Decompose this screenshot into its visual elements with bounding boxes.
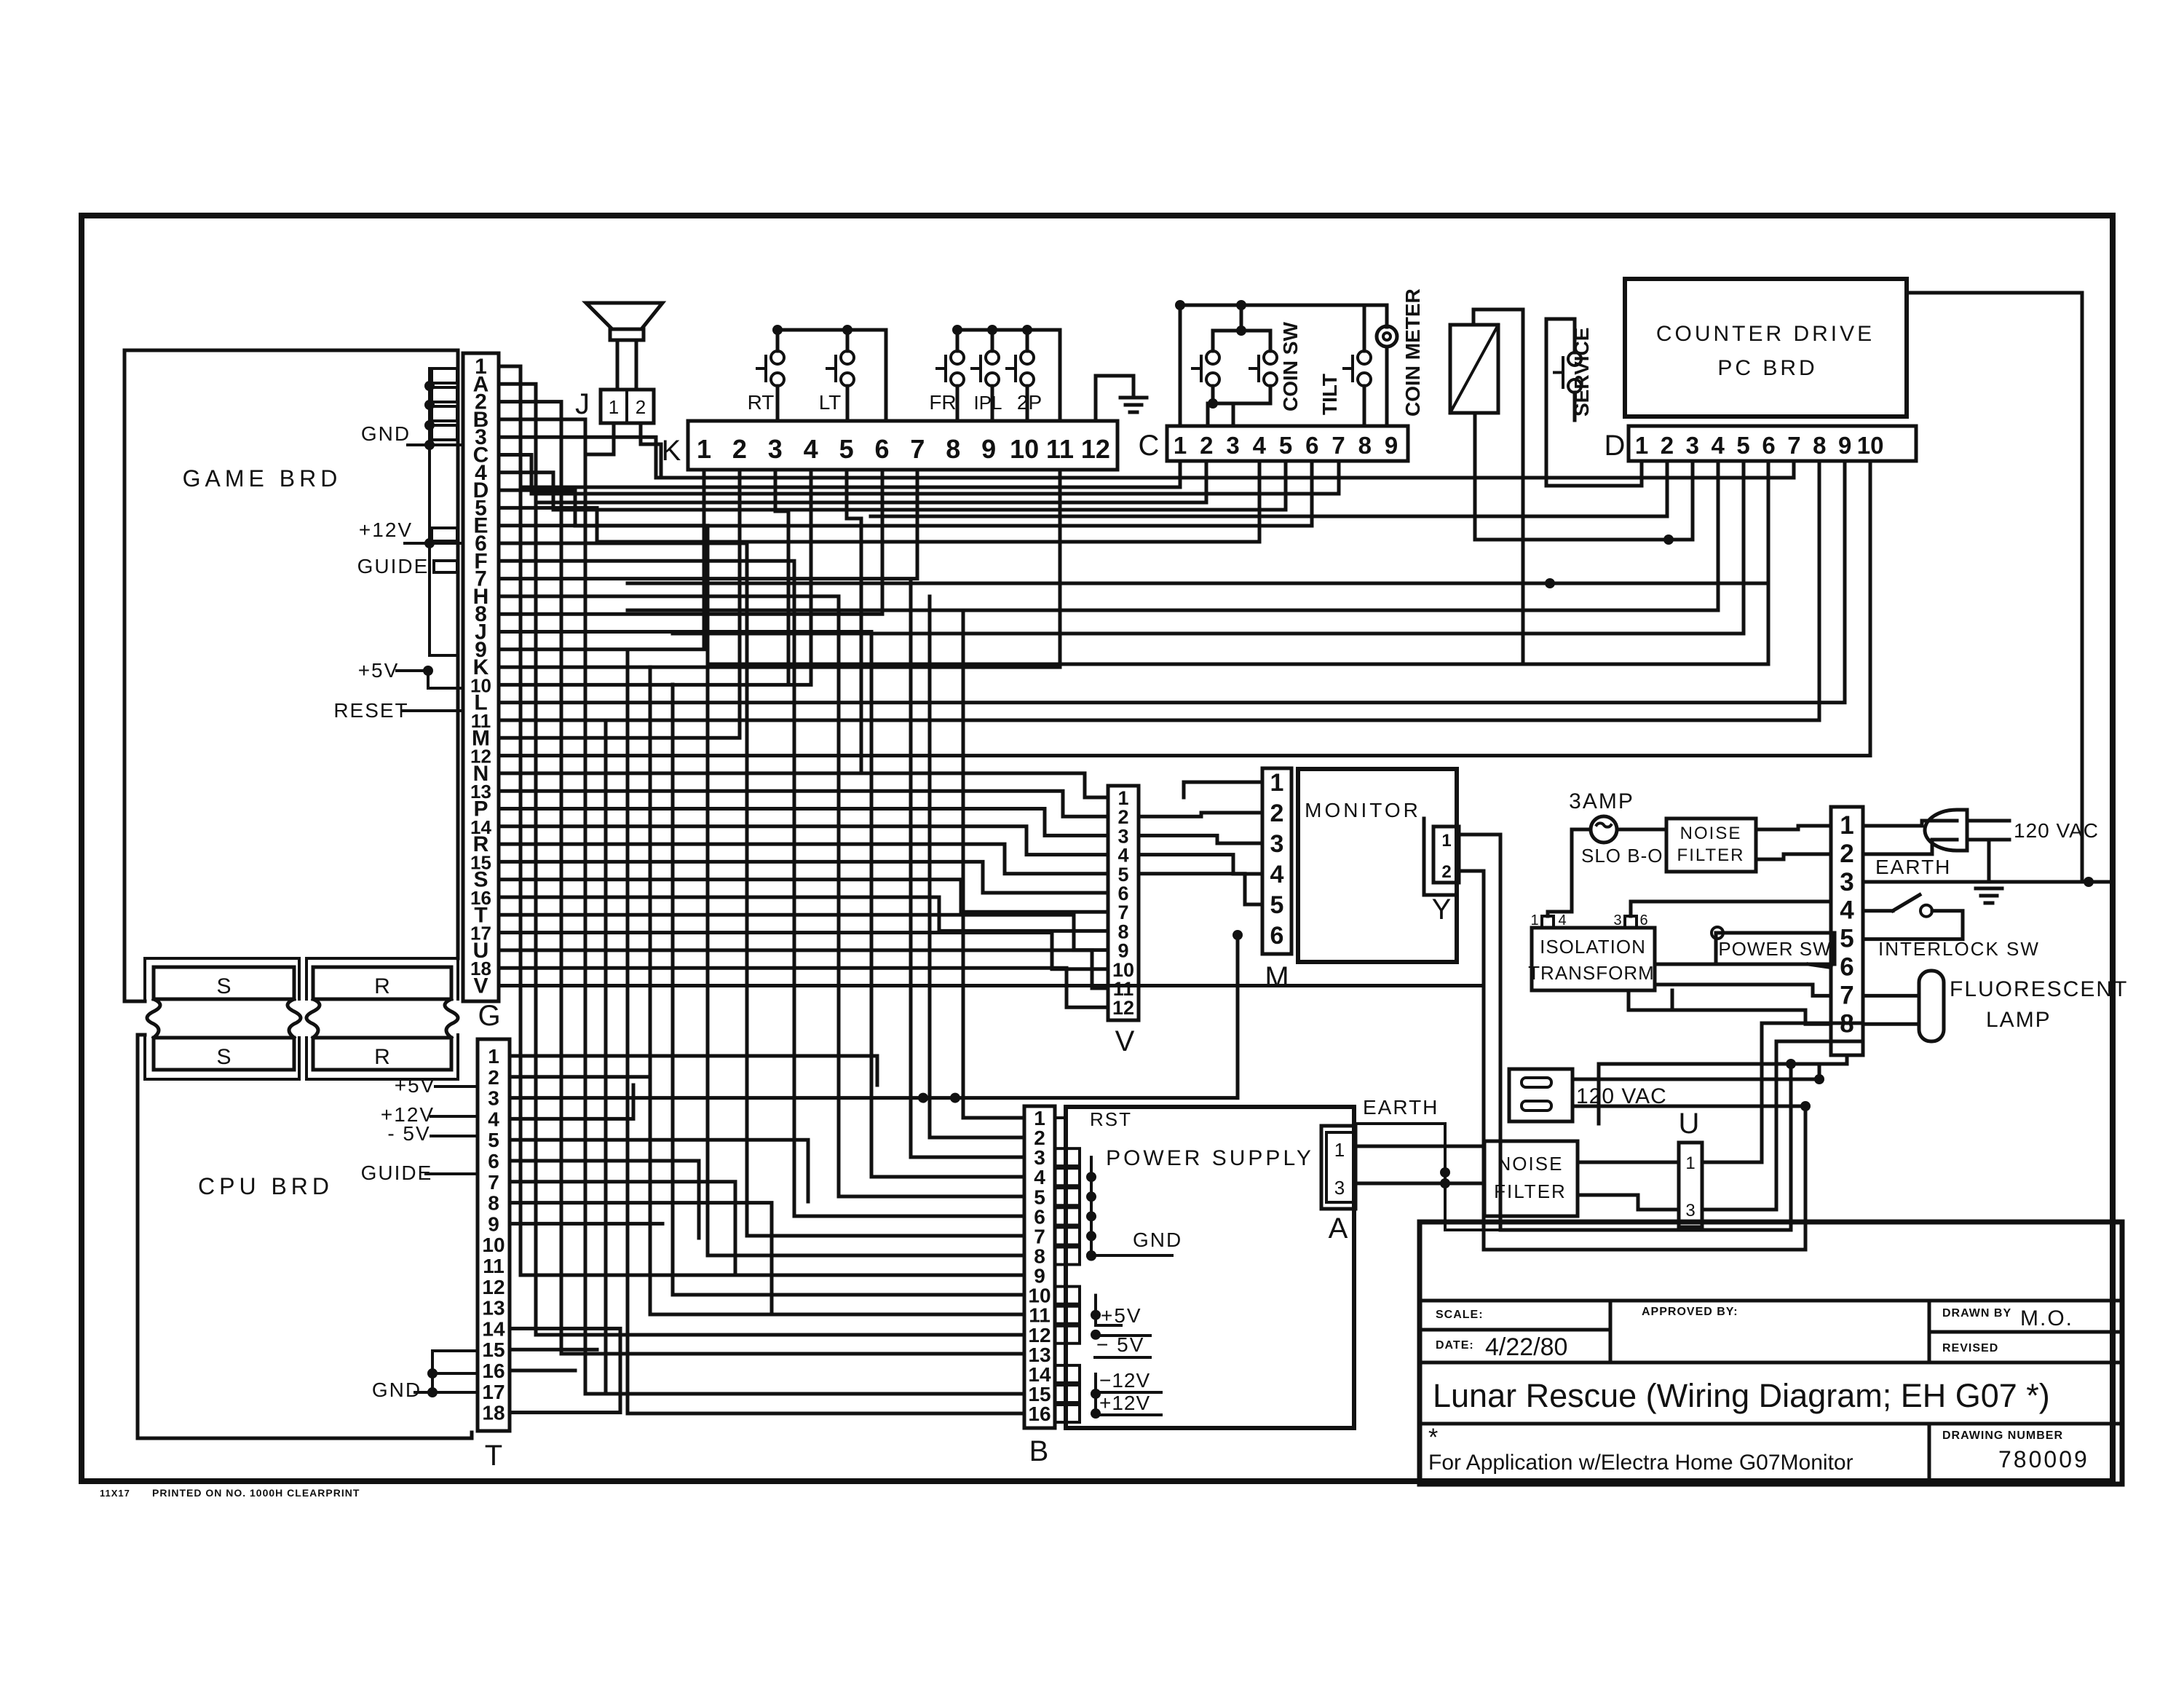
wire T3 long [510,1096,1238,1100]
wire gnd cpu [415,1391,478,1394]
svg-text:COUNTER DRIVE: COUNTER DRIVE [1656,322,1875,346]
wire row9 to K1 [499,470,704,650]
wire transformer6 to strip [1631,902,1831,916]
wire 12v collector [1096,1374,1121,1415]
wire service top to D1 [1546,319,1642,486]
wire vm staircase 4 [1139,855,1262,874]
wire right inner vertical [1907,293,2082,882]
wire rowC to C7 [499,455,1339,494]
svg-text:2: 2 [732,434,747,464]
wire transformer tap to strip8 [1672,1010,1831,1024]
svg-text:1: 1 [1334,1139,1345,1161]
svg-text:M: M [1265,961,1289,993]
svg-text:9: 9 [1838,432,1851,459]
wire rowN to V1 [499,773,1108,797]
svg-text:6: 6 [1840,953,1853,982]
svg-text:7: 7 [910,434,925,464]
svg-text:3AMP: 3AMP [1569,789,1634,813]
svg-text:3: 3 [1270,830,1284,858]
wire U3 right [1702,1041,1863,1210]
wire rowR to V5 [499,844,1108,874]
wire power sw to strip6 [1808,964,1831,968]
svg-text:3: 3 [768,434,783,464]
svg-text:B: B [1029,1435,1049,1467]
svg-text:10: 10 [482,1234,505,1256]
connector B strip [1024,1106,1055,1428]
fuse SLO-BLO [1591,816,1617,843]
wire Y2 down [1462,871,1805,1250]
wire noise filter to U1 [1578,1161,1679,1164]
wire T2 stub [510,1075,650,1078]
svg-text:1: 1 [488,1045,499,1068]
wire row10 to K4 [499,470,811,685]
svg-text:4: 4 [804,434,818,464]
GAME BRD box [124,350,458,1001]
wire strip8 lamp [1863,1022,1919,1026]
wire vm staircase 1 [1184,782,1262,797]
wire row18 to V12 [499,968,1108,1007]
wire strip8 bottom bus [1599,1055,1847,1124]
svg-text:5: 5 [488,1129,499,1151]
svg-text:8: 8 [1813,432,1826,459]
wire row15 to V6 [499,861,1108,893]
svg-text:7: 7 [1840,981,1853,1009]
wire FR to K8 [956,386,960,421]
wire Y1 down [1462,835,1791,1230]
wire LT to K5 [846,386,850,421]
svg-text:4: 4 [488,1108,499,1130]
transformer pins 1 4 [1542,916,1554,928]
wire trunk v1251 [911,579,1024,1157]
svg-text:PC BRD: PC BRD [1717,356,1817,380]
wire noise filter to strip1 [1756,826,1831,829]
svg-text:S: S [216,1045,231,1069]
wire earth bus right [1863,880,2110,884]
wire rowK to K11 [499,470,1060,667]
connector strip 1-8 [1831,807,1863,1055]
wire T5 stub [510,1140,808,1202]
svg-text:16: 16 [482,1360,505,1382]
svg-text:For Application w/Electra Home: For Application w/Electra Home G07Monito… [1428,1451,1853,1475]
svg-text:ISOLATION: ISOLATION [1540,936,1646,958]
ribbon cable S [154,967,294,999]
wire A3 to noise filter [1356,1182,1484,1186]
svg-text:GND: GND [361,422,411,445]
wire row17 to V10 [499,933,1108,969]
connector U [1679,1143,1702,1227]
wire D6 drop2 [628,461,1768,583]
svg-text:DRAWING NUMBER: DRAWING NUMBER [1942,1429,2063,1442]
wire rowJ trunk [499,632,1024,1178]
button TILT [1358,351,1371,364]
svg-text:GUIDE: GUIDE [357,555,430,577]
wire coin bus top [1180,305,1387,426]
transformer pins 3 6 [1625,916,1637,928]
wire T9 stub [510,1222,662,1226]
svg-text:1: 1 [697,434,711,464]
svg-text:NOISE: NOISE [1680,824,1742,843]
svg-text:+5V: +5V [395,1074,436,1097]
wire plug to strip2 [1863,840,1957,854]
wire noise filter to U3 [1578,1195,1679,1210]
svg-text:8: 8 [946,434,960,464]
wire row7 to K7 [499,470,917,579]
svg-text:MONITOR: MONITOR [1305,799,1421,821]
svg-text:4/22/80: 4/22/80 [1485,1333,1567,1361]
button 2P [1021,351,1034,364]
svg-text:INTERLOCK SW: INTERLOCK SW [1878,938,2040,960]
wire row13 to V2 [499,791,1108,816]
svg-text:4: 4 [1253,432,1267,459]
wire rowU to V11 [499,950,1108,988]
svg-text:LAMP: LAMP [1986,1008,2052,1032]
svg-text:14: 14 [482,1317,505,1340]
guide stub [432,528,457,541]
wire trunk v893 [650,667,1024,1314]
svg-text:16: 16 [1028,1403,1051,1425]
wire vm staircase 3 [1139,835,1262,843]
svg-text:CPU BRD: CPU BRD [198,1173,333,1199]
wire plug to strip1 [1863,821,1957,826]
svg-text:1: 1 [609,396,619,418]
power stub fingers B10-B12 [1055,1287,1080,1304]
svg-text:1: 1 [1840,811,1853,840]
wire rowL to D9 [499,461,1845,703]
interlock switch [1893,895,1920,911]
wire RT LT bus [778,330,886,421]
wire rowV long [499,984,1484,987]
wire T1 stub [510,1056,877,1085]
wire A1 to noise filter [1356,1145,1484,1148]
wire row12 to D10 [499,461,1870,756]
svg-text:6: 6 [1639,912,1647,928]
POWER SUPPLY box [1066,1107,1354,1428]
RST label [1055,1116,1066,1119]
switch SERVICE [1568,352,1581,366]
svg-text:2: 2 [1661,432,1674,459]
svg-text:6: 6 [1305,432,1318,459]
svg-text:FR: FR [929,391,956,414]
svg-text:GAME BRD: GAME BRD [183,465,342,492]
svg-text:TILT: TILT [1318,374,1341,415]
svg-text:DRAWN BY: DRAWN BY [1942,1307,2011,1320]
svg-text:3: 3 [1226,432,1239,459]
speaker SP [586,303,662,329]
wire rowD to C6 [499,461,1312,526]
svg-text:12: 12 [482,1276,505,1298]
svg-text:*: * [1428,1424,1438,1451]
svg-text:C: C [1139,430,1160,462]
svg-text:+5V: +5V [1101,1304,1142,1327]
svg-text:3: 3 [1840,868,1853,896]
svg-text:NOISE: NOISE [1497,1153,1564,1175]
svg-text:APPROVED BY:: APPROVED BY: [1642,1306,1738,1318]
svg-text:7: 7 [1787,432,1800,459]
wire J2 drop [641,423,661,478]
button RT [771,351,784,364]
wire T8 stub [510,1203,772,1311]
svg-text:9: 9 [981,434,996,464]
svg-text:6: 6 [1270,922,1284,950]
connector A [1321,1126,1356,1209]
fluorescent lamp [1919,971,1944,1041]
MONITOR box [1298,769,1457,962]
power stub fingers B14-B16 [1055,1365,1080,1383]
svg-text:G: G [478,1000,500,1032]
svg-text:4: 4 [1840,896,1854,925]
svg-text:COIN METER: COIN METER [1401,288,1424,417]
wire coin meter bottom [1475,413,1693,540]
svg-text:EARTH: EARTH [1363,1096,1439,1119]
svg-text:IPL: IPL [973,392,1002,414]
wire rowM to K2 [499,470,740,738]
connector T strip [478,1039,510,1431]
coin switch 1 [1206,351,1219,364]
wire rowT to V9 [499,915,1108,950]
wire rowS to V7 [499,880,1108,912]
ribbon outer wrap top [145,958,299,1001]
wire mesh upper staircase rows 1 A 2 B [499,366,1024,1275]
wire T14 stub [510,1328,620,1412]
wire 1PL to K9 [991,386,994,421]
wire coin sw tops [1213,331,1270,351]
svg-text:GND: GND [372,1379,422,1401]
wire trunk v862 [628,650,1024,1413]
connector G strip [463,353,499,1001]
wire row4 to C5 [499,461,1286,510]
svg-text:4: 4 [1270,861,1284,888]
svg-text:TRANSFORM: TRANSFORM [1528,962,1655,984]
svg-text:8: 8 [1358,432,1372,459]
wire M6 drop [1236,935,1240,1098]
CPU BRD box [138,1035,472,1438]
game board stub fingers [432,368,457,383]
svg-text:1: 1 [1685,1153,1695,1173]
wire C2 drop left [536,461,1206,502]
svg-text:6: 6 [1762,432,1775,459]
transformer bottom tap [1629,990,1672,1010]
svg-text:12: 12 [1112,997,1134,1019]
connector D strip [1629,426,1916,461]
wire coin sw to C2 [1206,403,1210,426]
wire row6 drop [499,543,1024,1236]
wire transformer secondary to strip7 [1655,985,1831,995]
wire row5 to C4 [499,461,1259,542]
wire guide bus [430,543,458,655]
connector M strip [1262,768,1291,954]
svg-text:RT: RT [748,391,775,414]
svg-text:3: 3 [1685,1201,1695,1220]
svg-text:GND: GND [1133,1228,1182,1251]
svg-text:REVISED: REVISED [1942,1342,1998,1354]
svg-text:A: A [1329,1212,1348,1245]
wire +5V to G [397,671,463,688]
svg-text:U: U [1679,1108,1700,1140]
svg-text:M.O.: M.O. [2020,1306,2073,1330]
svg-text:3: 3 [1613,912,1621,928]
svg-text:+12V: +12V [1099,1392,1150,1414]
svg-text:COIN SW: COIN SW [1279,322,1302,411]
svg-text:7: 7 [488,1171,499,1194]
svg-text:R: R [374,974,390,998]
wire coin sw bottoms [1213,386,1270,403]
svg-text:5: 5 [1736,432,1749,459]
wire trunk v1277 [930,596,1024,1137]
svg-text:T: T [485,1440,502,1472]
wire fuse left to transformer [1548,829,1591,916]
wire strip4 interlock [1863,909,1893,912]
button LT [841,351,854,364]
svg-text:6: 6 [874,434,889,464]
noise filter bottom box [1484,1141,1578,1216]
wire row14 to V4 [499,827,1108,855]
svg-text:−12V: −12V [1099,1369,1150,1392]
wire outlet bottom right [1572,1105,1805,1108]
wire row16 to V8 [499,897,1108,931]
wire U1 right [1702,1023,1863,1162]
wire FR 1PL 2P bus [957,330,1060,421]
svg-text:1: 1 [1441,831,1451,851]
wire J1 drop [585,423,614,454]
svg-text:2: 2 [488,1066,499,1089]
svg-text:PRINTED ON NO. 1000H CLEARPRIN: PRINTED ON NO. 1000H CLEARPRINT [152,1487,360,1499]
POWER SW box [1716,933,1835,964]
wire service bottom [1573,393,1577,420]
wire coin meter top [708,309,1523,664]
svg-text:POWER SUPPLY: POWER SUPPLY [1106,1146,1314,1170]
power stub fingers B3-B8 [1055,1148,1080,1166]
coin lamp [1385,305,1389,327]
wire C1 drop left [521,461,1180,487]
wire rowF drop [499,561,1024,1216]
svg-text:S: S [216,974,231,998]
svg-text:9: 9 [488,1212,499,1235]
svg-text:11: 11 [483,1255,505,1277]
wire T15 stub [510,1348,597,1352]
wire +5 collector [1096,1295,1121,1325]
wire noise filter to strip2 [1756,854,1831,859]
svg-text:120 VAC: 120 VAC [2014,819,2099,842]
svg-text:5: 5 [839,434,854,464]
wire K12 to ground [1096,376,1133,421]
svg-text:K: K [662,435,681,467]
svg-text:5: 5 [1279,432,1292,459]
wire rowE drop [499,526,1024,1255]
svg-text:1: 1 [1530,912,1538,928]
120VAC outlet [1509,1069,1572,1121]
wire trunk v1323 [963,614,1024,1118]
svg-text:11X17: 11X17 [100,1488,130,1499]
isolation transformer box [1532,928,1655,990]
svg-text:- 5V: - 5V [387,1122,430,1145]
border frame [82,216,2113,1481]
wire transformer to power sw [1655,963,1716,966]
wire vm staircase 2 [1139,813,1262,816]
svg-text:4: 4 [1558,912,1566,928]
noise filter top box [1666,819,1756,872]
wire D2 drop [871,461,1667,516]
svg-text:POWER SW: POWER SW [1718,938,1831,960]
wire fuse right to noise filter [1617,828,1666,832]
svg-text:12: 12 [1081,434,1110,464]
svg-text:LT: LT [819,391,842,414]
coin meter box [1450,325,1498,413]
wire earth frame return [1445,1195,1500,1230]
title block [1420,1222,2122,1484]
svg-text:2: 2 [1270,800,1284,827]
wire trunk v924 [673,685,1024,1295]
wire T7 stub [510,1182,735,1274]
svg-text:FILTER: FILTER [1494,1180,1567,1202]
wire earth ps [1354,1124,1445,1195]
svg-text:1: 1 [1635,432,1648,459]
wire T16 stub [510,1369,575,1373]
wire D6 drop [708,461,1768,664]
wire RT to K3 [776,386,780,421]
wire TILT to C8 [1363,386,1366,426]
svg-text:EARTH: EARTH [1875,856,1951,878]
wire interlock return strip5 [1863,911,1963,939]
wire D4 drop [628,461,1718,610]
wire K3 drop [775,470,788,685]
svg-text:9: 9 [1385,432,1398,459]
wire T6 stub [510,1161,699,1238]
120VAC plug [1925,810,1967,851]
svg-text:5: 5 [1840,925,1853,953]
button FR [951,351,964,364]
svg-text:17: 17 [482,1381,505,1403]
wire rowP to V3 [499,809,1108,836]
svg-text:3: 3 [1686,432,1699,459]
wire D5 drop [673,461,1744,634]
wire rowH trunk [499,596,1024,1196]
svg-text:DATE:: DATE: [1436,1339,1474,1352]
svg-text:5: 5 [1270,891,1284,919]
wire outlet top right [1572,1078,1819,1081]
wire vm staircase 5 [1139,874,1262,904]
svg-text:2: 2 [1840,840,1853,868]
svg-text:V: V [473,974,488,998]
wire row11 to D8 [499,461,1819,720]
connector K strip [688,421,1117,470]
ribbon cable R [313,967,451,999]
COUNTER DRIVE PC BRD box [1625,279,1907,417]
connector Y [1424,819,1457,895]
connector J [601,390,654,423]
svg-text:+5V: +5V [358,659,400,682]
svg-text:10: 10 [1010,434,1039,464]
wire gnd collector [1091,1157,1112,1255]
ground symbol right [1987,840,1991,882]
ribbon outer wrap bottom [145,1035,299,1079]
svg-text:GUIDE: GUIDE [361,1162,433,1184]
svg-text:1: 1 [1270,769,1284,797]
svg-text:FILTER: FILTER [1677,845,1745,865]
svg-text:7: 7 [1332,432,1345,459]
wire GND to G [408,443,463,446]
connector V strip [1108,786,1139,1020]
svg-text:D: D [1605,430,1626,462]
svg-text:V: V [1115,1025,1135,1057]
svg-text:SCALE:: SCALE: [1436,1309,1484,1321]
coin switch 2 [1264,351,1277,364]
wire coin sw to C3 [1232,403,1235,426]
svg-text:11: 11 [1046,434,1074,464]
svg-text:RST: RST [1090,1108,1132,1130]
ground symbol near K12 [1120,396,1147,400]
wire T4 stub [510,1085,633,1119]
svg-text:2: 2 [636,396,646,418]
